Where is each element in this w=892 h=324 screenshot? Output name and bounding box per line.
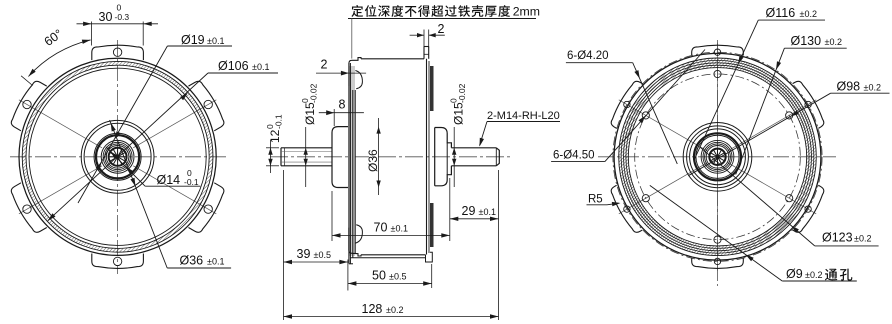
svg-text:±0.5: ±0.5 bbox=[314, 250, 331, 260]
svg-text:±0.1: ±0.1 bbox=[207, 36, 224, 46]
svg-text:39: 39 bbox=[297, 247, 311, 261]
extension line shaft left end bbox=[283, 170, 285, 320]
svg-text:50: 50 bbox=[372, 269, 386, 283]
svg-text:Ø15: Ø15 bbox=[303, 102, 317, 125]
right view boss ring a bbox=[683, 123, 752, 192]
dimension 2 front flange bbox=[316, 58, 366, 76]
left view tab hole 6 bbox=[23, 100, 31, 108]
left view crimp band hatched bbox=[22, 61, 213, 252]
svg-text:Ø14: Ø14 bbox=[157, 173, 181, 187]
svg-text:±0.2: ±0.2 bbox=[864, 83, 881, 93]
svg-text:±0.5: ±0.5 bbox=[389, 272, 406, 282]
left view bearing circle a bbox=[94, 133, 141, 180]
middle case top line bbox=[361, 58, 424, 60]
right view crimp band hatched bbox=[619, 58, 817, 256]
dimension 29 bbox=[450, 204, 499, 221]
svg-text:±0.1: ±0.1 bbox=[391, 224, 408, 234]
label O106 with leader bbox=[48, 59, 278, 221]
right view ring O19 bbox=[701, 140, 734, 173]
right view ring O15 bbox=[705, 144, 731, 170]
dimension 128 bbox=[284, 302, 499, 319]
dimension 8 hub protrusion bbox=[319, 98, 364, 127]
right view tab hole O4.2 #5 bbox=[624, 206, 630, 212]
right view hole O4.5 #5 bbox=[642, 195, 649, 202]
middle case bottom crimp line bbox=[351, 257, 426, 259]
middle view axis centerline bbox=[270, 156, 512, 158]
middle case right face bbox=[427, 59, 430, 255]
middle case bottom line bbox=[361, 254, 426, 256]
left view outer circle bbox=[19, 58, 216, 255]
svg-text:6-Ø4.20: 6-Ø4.20 bbox=[567, 50, 609, 62]
right view shaft end knurl bbox=[709, 149, 725, 165]
right view vertical centerline bbox=[717, 40, 719, 286]
left view circle O15 bbox=[105, 144, 131, 170]
dimension 50 bbox=[348, 269, 432, 286]
left view circle bbox=[103, 142, 132, 171]
label O130 with leader bbox=[736, 34, 847, 175]
left view shaft circle O14 bbox=[106, 146, 129, 169]
right view tab 4 (270 deg) bbox=[692, 258, 744, 268]
svg-text:±0.1: ±0.1 bbox=[479, 207, 496, 217]
dimension 70 bbox=[332, 221, 450, 238]
label O98 with leader bbox=[688, 80, 889, 176]
left view horizontal centerline bbox=[10, 156, 228, 158]
svg-text:-0.3: -0.3 bbox=[115, 12, 130, 22]
right view boss ring b bbox=[687, 126, 749, 188]
svg-text:Ø15: Ø15 bbox=[452, 102, 466, 125]
svg-text:29: 29 bbox=[462, 204, 476, 218]
extension line front flange face bbox=[347, 260, 349, 291]
label O36 with leader bbox=[110, 120, 232, 268]
svg-text:±0.1: ±0.1 bbox=[252, 62, 269, 72]
extension line right step bbox=[449, 178, 451, 241]
svg-text:30: 30 bbox=[99, 10, 113, 24]
right view ring bbox=[703, 142, 732, 171]
left view tab hole 5 bbox=[23, 205, 31, 213]
right view tab 3 (330 deg) bbox=[793, 185, 827, 235]
svg-text:Ø9: Ø9 bbox=[786, 267, 803, 281]
left view mounting tab 6 (150 deg) bbox=[8, 79, 47, 131]
svg-text:2: 2 bbox=[321, 58, 328, 72]
extension line body right bbox=[431, 264, 433, 288]
dimension 30 tab width bbox=[77, 3, 159, 46]
middle front cover plate lines bbox=[349, 63, 355, 264]
left view tab hole 1 bbox=[113, 48, 121, 56]
left view inner rim circle bbox=[29, 68, 206, 245]
right view bolt circle O130 dashdot bbox=[613, 52, 822, 261]
svg-text:Ø36: Ø36 bbox=[366, 149, 380, 172]
right view bearing ring bbox=[696, 135, 739, 178]
extension line hub left face bbox=[331, 191, 333, 241]
right view tab hole O4.2 #4 bbox=[714, 258, 720, 264]
left view bearing circle b (thick) bbox=[96, 135, 139, 178]
middle left shaft bbox=[281, 148, 332, 166]
right view tab 5 (210 deg) bbox=[608, 185, 642, 235]
note positioning depth with leader bbox=[348, 5, 540, 59]
middle right shaft M14 bbox=[451, 148, 499, 166]
dimension O15 right shaft bbox=[449, 83, 468, 187]
left view boss circle O36 inner bbox=[84, 123, 151, 190]
left view vertical centerline bbox=[117, 40, 119, 274]
svg-text:-0.02: -0.02 bbox=[457, 83, 467, 103]
middle rear crimp lip top bbox=[424, 47, 429, 59]
right view bearing ring thick bbox=[694, 133, 741, 180]
right view tab 1 (90 deg) bbox=[692, 45, 744, 55]
right view tab 6 (150 deg) bbox=[608, 79, 642, 129]
svg-text:2: 2 bbox=[438, 22, 445, 36]
svg-text:-0.1: -0.1 bbox=[184, 177, 199, 187]
middle rear cover plate bars bbox=[430, 66, 434, 247]
middle rear crimp bottom bbox=[426, 252, 433, 262]
svg-text:128: 128 bbox=[362, 302, 383, 316]
left view mounting tab 2 (30 deg) bbox=[188, 79, 227, 131]
svg-text:-0.1: -0.1 bbox=[274, 114, 284, 129]
svg-text:±0.2: ±0.2 bbox=[800, 9, 817, 19]
right view hole O4.5 #1 bbox=[714, 70, 721, 77]
left view boss circle O36 outer bbox=[81, 120, 154, 193]
middle front cover top step bbox=[349, 58, 363, 89]
svg-text:Ø98: Ø98 bbox=[837, 80, 861, 94]
svg-text:0: 0 bbox=[117, 3, 122, 13]
dimension O15 left shaft bbox=[300, 83, 319, 187]
middle right hub with step bbox=[435, 128, 452, 186]
svg-text:-0.02: -0.02 bbox=[309, 83, 319, 103]
svg-text:±0.2: ±0.2 bbox=[825, 37, 842, 47]
label O123 with leader bbox=[700, 147, 879, 246]
left view tab hole 2 bbox=[204, 100, 212, 108]
svg-text:Ø106: Ø106 bbox=[218, 59, 249, 73]
left view mounting tab 4 (270 deg) bbox=[92, 254, 144, 269]
label R5 with leader bbox=[587, 194, 621, 207]
dimension 39 bbox=[284, 247, 348, 264]
right view tab hole O4.2 #1 bbox=[714, 49, 720, 55]
left view circle O19 bbox=[101, 140, 134, 173]
left view mounting tab 5 (210 deg) bbox=[8, 183, 47, 235]
right view hole O4.5 #4 bbox=[714, 236, 721, 243]
right view shaft ring bbox=[706, 146, 729, 169]
dimension 2 rear lip bbox=[410, 22, 445, 48]
svg-text:±0.1: ±0.1 bbox=[207, 257, 224, 267]
right view radial centerlines bbox=[619, 43, 816, 271]
right view boss ring c bbox=[690, 129, 746, 185]
middle front cover bottom step bbox=[349, 225, 363, 256]
right view tab 2 (30 deg) bbox=[793, 79, 827, 129]
right view tab hole O4.2 #6 bbox=[624, 101, 630, 107]
svg-text:Ø116: Ø116 bbox=[766, 6, 796, 20]
label O19 with leader bbox=[78, 33, 232, 203]
left view shaft end knurl bbox=[109, 148, 127, 166]
svg-text:±0.2: ±0.2 bbox=[854, 234, 871, 244]
label O14 with leader bbox=[106, 147, 200, 187]
right view hole O4.5 #3 bbox=[786, 195, 793, 202]
left view mounting tab 3 (330 deg) bbox=[188, 183, 227, 235]
svg-text:±0.2: ±0.2 bbox=[805, 270, 822, 280]
right view hole O4.5 #2 bbox=[786, 112, 793, 119]
svg-text:8: 8 bbox=[339, 98, 346, 112]
right view horizontal centerline bbox=[598, 156, 836, 158]
label 6-O4.50 with leader bbox=[551, 50, 705, 162]
left view mounting tab 1 (90 deg) bbox=[92, 45, 144, 60]
label 6-O4.20 with leader bbox=[566, 50, 677, 164]
svg-text:70: 70 bbox=[374, 221, 388, 235]
extension line shaft right end bbox=[498, 170, 500, 320]
dimension 60 degrees bbox=[21, 27, 91, 86]
svg-text:6-Ø4.50: 6-Ø4.50 bbox=[553, 150, 595, 162]
right view hole O4.5 #6 bbox=[642, 112, 649, 119]
right view tab hole O4.2 #3 bbox=[805, 206, 811, 212]
svg-text:2mm: 2mm bbox=[513, 5, 540, 19]
svg-text:12: 12 bbox=[268, 129, 282, 143]
svg-text:2-M14-RH-L20: 2-M14-RH-L20 bbox=[487, 110, 560, 122]
svg-text:Ø36: Ø36 bbox=[180, 254, 204, 268]
right view tab hole O4.2 #2 bbox=[805, 101, 811, 107]
svg-text:R5: R5 bbox=[588, 194, 603, 206]
dimension O36 hub bbox=[366, 118, 381, 195]
svg-text:Ø130: Ø130 bbox=[791, 34, 822, 48]
right view bolt circle O98 dashdot bbox=[635, 74, 801, 240]
label 2-M14-RH-L20 with leader bbox=[480, 110, 561, 147]
right view outer circle O123 bbox=[614, 53, 821, 260]
svg-text:Ø123: Ø123 bbox=[822, 231, 853, 245]
label O9 through hole with leader bbox=[650, 185, 857, 281]
left view radial centerlines to tabs bbox=[19, 100, 216, 214]
left view tab hole 4 bbox=[113, 257, 121, 265]
left view tab hole 3 bbox=[204, 205, 212, 213]
svg-text:Ø19: Ø19 bbox=[181, 33, 205, 47]
svg-text:±0.2: ±0.2 bbox=[386, 305, 403, 315]
label O116 with leader bbox=[694, 6, 825, 160]
dimension 12 shaft flat bbox=[265, 114, 284, 173]
middle left hub O36 bbox=[332, 127, 348, 188]
